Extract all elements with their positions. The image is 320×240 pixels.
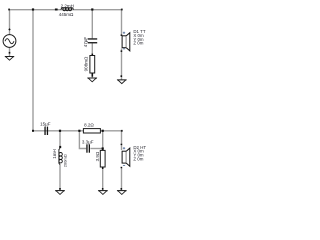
voltage source V1 sine xyxy=(5,39,14,44)
ground R1 xyxy=(88,75,97,82)
node corner mid-right xyxy=(121,130,123,132)
inductor L2 series-R block xyxy=(59,146,61,148)
node junction C1 tap xyxy=(91,8,93,10)
speaker D1 plus mark xyxy=(123,32,125,34)
wire D2 branch vertical xyxy=(121,131,123,150)
speaker D1 xyxy=(121,33,130,52)
wire D1 to ground xyxy=(121,49,123,81)
node corner top-left xyxy=(8,9,10,11)
node junction L2 tap xyxy=(59,130,61,132)
speaker D2 xyxy=(121,144,130,169)
node junction RC left xyxy=(78,130,80,132)
wire R1 to ground xyxy=(91,73,93,78)
wire C3 left stub xyxy=(79,131,86,149)
wire D2 to ground xyxy=(121,168,123,190)
wire D1 branch vertical xyxy=(121,10,123,36)
voltage source V1 arrow xyxy=(8,28,10,30)
node corner mid-left xyxy=(32,130,34,132)
capacitor C1 xyxy=(88,38,98,43)
wire C1 branch upper xyxy=(91,10,93,39)
svg-text:908mΩ: 908mΩ xyxy=(83,56,88,71)
node junction RC right xyxy=(102,130,104,132)
wire source vertical xyxy=(9,10,11,35)
resistor R1 xyxy=(90,54,95,75)
svg-text:2.2mH: 2.2mH xyxy=(61,4,74,9)
inductor L2 coil xyxy=(59,148,62,164)
svg-text:47µF: 47µF xyxy=(83,37,88,48)
svg-text:Z 0m: Z 0m xyxy=(133,41,143,46)
resistor R2 xyxy=(83,129,100,133)
svg-text:445mΩ: 445mΩ xyxy=(59,12,74,17)
wire source to ground xyxy=(9,47,11,56)
ground source xyxy=(5,52,14,60)
node junction top-left xyxy=(32,8,34,10)
ground R3 xyxy=(98,188,107,194)
wire left branch vertical xyxy=(32,10,34,132)
node corner top-right xyxy=(121,9,123,11)
wire mid horizontal net xyxy=(33,130,122,132)
wire L2 to ground xyxy=(59,165,61,191)
wire R3 top stub xyxy=(102,131,104,149)
inductor L1 series-R block xyxy=(55,9,58,11)
svg-text:15µF: 15µF xyxy=(40,122,51,127)
voltage source V1 xyxy=(3,35,16,48)
wire C3 right segment xyxy=(90,148,102,150)
svg-text:Z 0m: Z 0m xyxy=(133,157,143,162)
wire top horizontal net xyxy=(9,9,122,11)
ground D1 xyxy=(117,75,126,83)
resistor R3 xyxy=(100,149,105,169)
wire C1 to R1 xyxy=(91,43,93,55)
ground L2 xyxy=(55,188,64,194)
svg-text:3.9Ω: 3.9Ω xyxy=(95,151,100,161)
wire R3 to ground xyxy=(102,167,104,190)
svg-text:200mΩ: 200mΩ xyxy=(62,154,67,167)
node junction C3-R3 xyxy=(102,147,104,149)
svg-text:3.3µF: 3.3µF xyxy=(82,139,94,144)
svg-text:1mH: 1mH xyxy=(52,149,57,159)
wire L2 branch down xyxy=(59,131,61,146)
ground D2 xyxy=(117,188,126,194)
svg-text:8.2Ω: 8.2Ω xyxy=(84,122,94,127)
capacitor C3 xyxy=(86,144,90,152)
speaker D2 plus mark xyxy=(123,147,125,149)
capacitor C2 xyxy=(44,127,48,135)
inductor L1 coil xyxy=(61,8,74,11)
